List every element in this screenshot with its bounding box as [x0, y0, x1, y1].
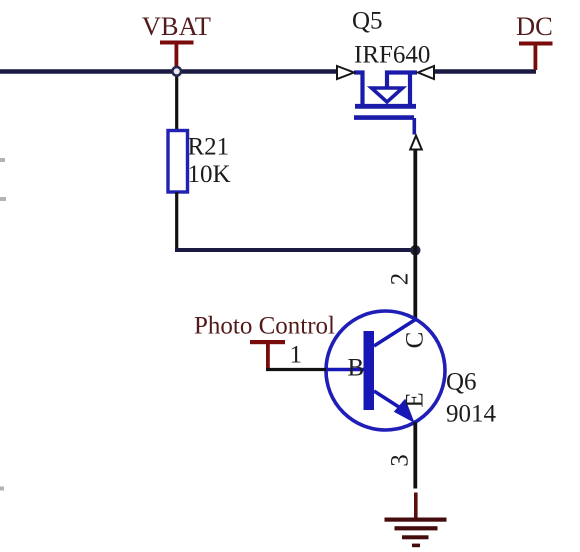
svg-text:DC: DC — [516, 11, 553, 41]
svg-text:B: B — [348, 355, 365, 382]
svg-text:R21: R21 — [188, 134, 230, 161]
svg-text:Photo Control: Photo Control — [194, 313, 335, 340]
svg-text:VBAT: VBAT — [142, 11, 211, 41]
svg-text:C: C — [401, 332, 428, 349]
svg-text:9014: 9014 — [446, 401, 497, 428]
svg-text:E: E — [401, 392, 428, 407]
svg-text:10K: 10K — [188, 161, 231, 188]
svg-text:2: 2 — [386, 273, 413, 286]
svg-text:3: 3 — [386, 454, 413, 467]
svg-text:IRF640: IRF640 — [354, 42, 430, 69]
svg-text:1: 1 — [290, 342, 303, 369]
svg-text:Q6: Q6 — [446, 369, 477, 396]
svg-text:Q5: Q5 — [352, 8, 383, 35]
